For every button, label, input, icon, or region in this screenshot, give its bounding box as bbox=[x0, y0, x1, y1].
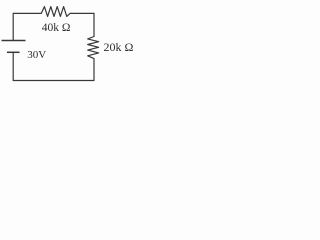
svg-text:40k Ω: 40k Ω bbox=[42, 22, 71, 34]
svg-text:20k Ω: 20k Ω bbox=[104, 40, 134, 54]
svg-text:30V: 30V bbox=[27, 49, 46, 61]
